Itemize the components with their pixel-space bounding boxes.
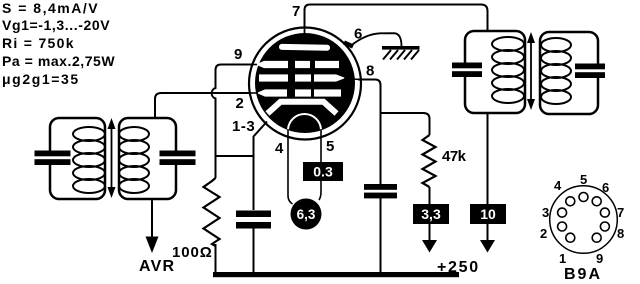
wire 3,3 box to +250 arrow	[429, 224, 431, 241]
tube anode disc black	[255, 33, 355, 133]
base pin 3	[558, 208, 567, 217]
coil primary ellipses	[492, 37, 524, 103]
secondary cap gap eraser	[172, 151, 180, 165]
svg-text:6: 6	[602, 180, 609, 195]
grid row3 dash right	[314, 89, 341, 96]
wire cathode junction to bypass capacitor	[253, 156, 255, 210]
wire pin6 to chassis ground	[351, 33, 402, 46]
grid row1 dash mid	[295, 61, 310, 68]
secondary tank loop	[540, 32, 598, 114]
ground bus bottom	[213, 272, 459, 277]
tuning arrow double-headed	[111, 127, 113, 189]
svg-text:7: 7	[292, 3, 300, 20]
capacitor secondary plate top	[160, 151, 196, 157]
svg-text:2: 2	[236, 95, 244, 112]
svg-text:Ri = 750k: Ri = 750k	[2, 35, 75, 51]
grid row3 dash left tapered to pin2	[257, 89, 288, 96]
svg-text:+250: +250	[437, 259, 480, 276]
wire pin8 screen to decoupling cap	[358, 80, 381, 185]
arrow to +250 left	[422, 240, 437, 253]
capacitor primary plate bottom	[35, 159, 71, 165]
capacitor secondary plate top	[575, 64, 605, 70]
wire pin2 to left IF transformer secondary	[155, 93, 250, 118]
B9A base diagram	[540, 172, 624, 283]
wire AVR from secondary tank bottom	[151, 199, 153, 237]
cathode bar	[268, 102, 337, 114]
svg-text:4: 4	[275, 140, 284, 157]
base circle	[550, 186, 618, 254]
primary tank loop	[465, 31, 525, 113]
svg-text:9: 9	[596, 251, 603, 266]
resistor R 100ohm zigzag	[204, 178, 220, 246]
svg-text:3: 3	[542, 205, 549, 220]
svg-text:8: 8	[366, 63, 374, 80]
base pin 4	[566, 197, 575, 206]
primary cap gap eraser	[461, 63, 469, 77]
wire 100ohm resistor bottom to ground bus	[215, 244, 217, 272]
svg-text:μg2g1=35: μg2g1=35	[2, 71, 80, 87]
current label box 3,3	[413, 204, 449, 224]
primary cap gap eraser	[46, 151, 54, 165]
heater wire pin5 leg lower	[319, 181, 321, 200]
wire pin7 top to output transformer	[305, 5, 488, 32]
pin9 stub across ring	[251, 64, 257, 66]
capacitor screen decoupling plate top	[364, 184, 397, 190]
tube anode top bar	[279, 44, 330, 51]
svg-text:0.3: 0.3	[313, 164, 333, 180]
base pin 9	[592, 233, 601, 242]
heater wire pin4 leg	[288, 129, 293, 204]
svg-text:1-3: 1-3	[232, 118, 255, 135]
coil secondary ellipses	[119, 127, 149, 193]
svg-text:5: 5	[580, 172, 587, 187]
grid row2 dash mid	[295, 74, 311, 81]
svg-text:9: 9	[234, 46, 242, 63]
pin8 stub across ring	[344, 79, 361, 80]
svg-text:6,3: 6,3	[297, 207, 316, 222]
svg-text:B9A: B9A	[564, 266, 602, 283]
left IF transformer	[35, 118, 196, 199]
current label box 0.3	[303, 162, 343, 181]
svg-text:1: 1	[559, 251, 566, 266]
wire 10 box to +250 arrow	[487, 224, 489, 241]
wire cathode junction horizontal	[215, 155, 255, 157]
resistor R 47k zigzag	[423, 135, 436, 187]
wire bypass capacitor to ground bus	[253, 228, 255, 273]
svg-text:2: 2	[540, 226, 547, 241]
capacitor primary plate bottom	[452, 71, 482, 77]
capacitor secondary plate bottom	[160, 159, 196, 165]
chassis ground hatch strokes	[383, 50, 419, 60]
right IF output transformer	[452, 31, 605, 114]
grid g? row1 dash left tapered to pin9	[256, 61, 289, 68]
capacitor primary plate top	[35, 151, 71, 157]
chassis ground bar	[382, 46, 420, 50]
svg-text:Vg1=-1,3...-20V: Vg1=-1,3...-20V	[2, 17, 110, 33]
heater wire pin5 leg upper	[320, 129, 322, 162]
base pin 7	[600, 208, 609, 217]
svg-text:7: 7	[617, 205, 624, 220]
svg-text:3,3: 3,3	[421, 206, 441, 222]
pin6 connection blob	[344, 43, 353, 47]
grid row2 dash left	[259, 74, 288, 81]
current label box 10	[470, 204, 506, 224]
base pin 8	[600, 222, 609, 231]
voltage label circle 6,3	[291, 199, 322, 230]
capacitor cathode bypass plate top	[236, 211, 271, 218]
arrow to +250 right	[480, 240, 495, 253]
base pin 2	[558, 222, 567, 231]
svg-text:Pa = max.2,75W: Pa = max.2,75W	[2, 53, 115, 69]
grid row3 dash mid	[295, 89, 311, 96]
wire cathode junction to 100ohm resistor	[215, 156, 217, 178]
svg-text:10: 10	[480, 206, 496, 222]
base pin 1	[566, 233, 575, 242]
capacitor primary plate top	[452, 63, 482, 69]
wire pin9 to cathode junction vertical	[212, 65, 253, 157]
tube U1 pentode	[249, 26, 361, 140]
heater arch white arc	[288, 114, 321, 131]
capacitor secondary plate bottom	[575, 72, 605, 78]
svg-text:5: 5	[326, 138, 334, 155]
svg-text:S = 8,4mA/V: S = 8,4mA/V	[2, 0, 99, 16]
svg-text:6: 6	[354, 26, 362, 43]
grid row2 dash right tapered to pin8	[314, 74, 346, 81]
primary tank loop left	[50, 118, 105, 199]
pin2 stub across ring	[249, 92, 258, 94]
tube envelope circle	[249, 28, 361, 140]
svg-text:47k: 47k	[442, 148, 467, 165]
pin7 stub across ring	[304, 26, 306, 34]
svg-text:8: 8	[617, 226, 624, 241]
svg-text:AVR: AVR	[139, 258, 175, 275]
wire screen decoupling cap to ground bus	[380, 198, 382, 273]
coil secondary ellipses	[541, 38, 571, 104]
secondary tank loop right	[119, 118, 176, 199]
arrow AVR	[146, 237, 159, 254]
capacitor screen decoupling plate bottom	[364, 193, 397, 199]
secondary cap gap eraser	[594, 64, 602, 78]
base pin 5	[579, 193, 588, 202]
capacitor cathode bypass plate bottom	[236, 222, 271, 229]
wire 47k to 3,3 box	[429, 187, 431, 204]
svg-text:4: 4	[554, 178, 562, 193]
coil primary ellipses	[73, 127, 105, 193]
wire screen node to 47k resistor	[381, 113, 430, 135]
base pin 6	[592, 197, 601, 206]
tuning arrow double-headed	[530, 41, 532, 101]
wire output transformer bottom to 10 box	[487, 113, 489, 204]
svg-text:100Ω: 100Ω	[172, 244, 213, 261]
grid row1 dash right	[315, 61, 339, 68]
wire cathode 1-3 down	[254, 122, 268, 157]
